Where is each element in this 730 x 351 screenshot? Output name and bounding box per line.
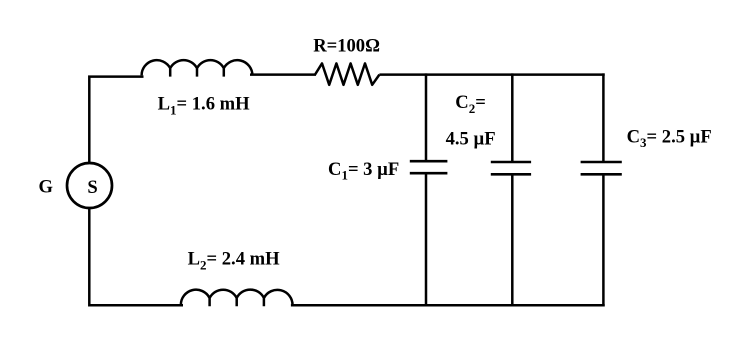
wire: C3 branch upper (right edge)	[602, 73, 605, 161]
svg-text:R=100Ω: R=100Ω	[313, 36, 380, 57]
wire: C2 branch lower	[511, 174, 514, 306]
svg-text:C1= 3 µF: C1= 3 µF	[328, 159, 399, 183]
svg-text:G: G	[39, 176, 53, 197]
svg-text:S: S	[87, 177, 97, 198]
capacitor C2	[491, 73, 531, 306]
capacitor C1	[410, 73, 448, 306]
wire: left vertical lower segment and bottom-left corner to L2	[89, 209, 183, 306]
C1 top plate	[410, 160, 448, 163]
wire: left vertical upper segment and top-left corner to L1	[89, 77, 143, 163]
inductor L2	[181, 290, 293, 307]
C1 bottom plate	[410, 172, 448, 175]
wire: C1 branch upper	[425, 73, 428, 160]
wire: C2 branch upper	[511, 73, 514, 161]
wire: C3 branch lower (right edge)	[602, 174, 605, 306]
svg-text:4.5 µF: 4.5 µF	[446, 128, 496, 149]
wire: top segment from resistor to top-right corner	[379, 73, 604, 76]
resistor R1	[315, 63, 379, 84]
C2 top plate	[491, 161, 531, 164]
inductor L1	[142, 60, 253, 76]
C3 top plate	[581, 161, 622, 164]
wire: C1 branch lower	[425, 173, 428, 306]
C2 bottom plate	[491, 173, 531, 176]
generator source circle	[67, 163, 112, 208]
wire: bottom segment from L2 to bottom-right corner	[291, 304, 605, 307]
wire: top segment between L1 and resistor	[250, 73, 316, 76]
capacitor C3 and right side of loop	[581, 73, 622, 306]
C3 bottom plate	[581, 173, 622, 176]
svg-text:C3= 2.5 µF: C3= 2.5 µF	[627, 126, 712, 150]
